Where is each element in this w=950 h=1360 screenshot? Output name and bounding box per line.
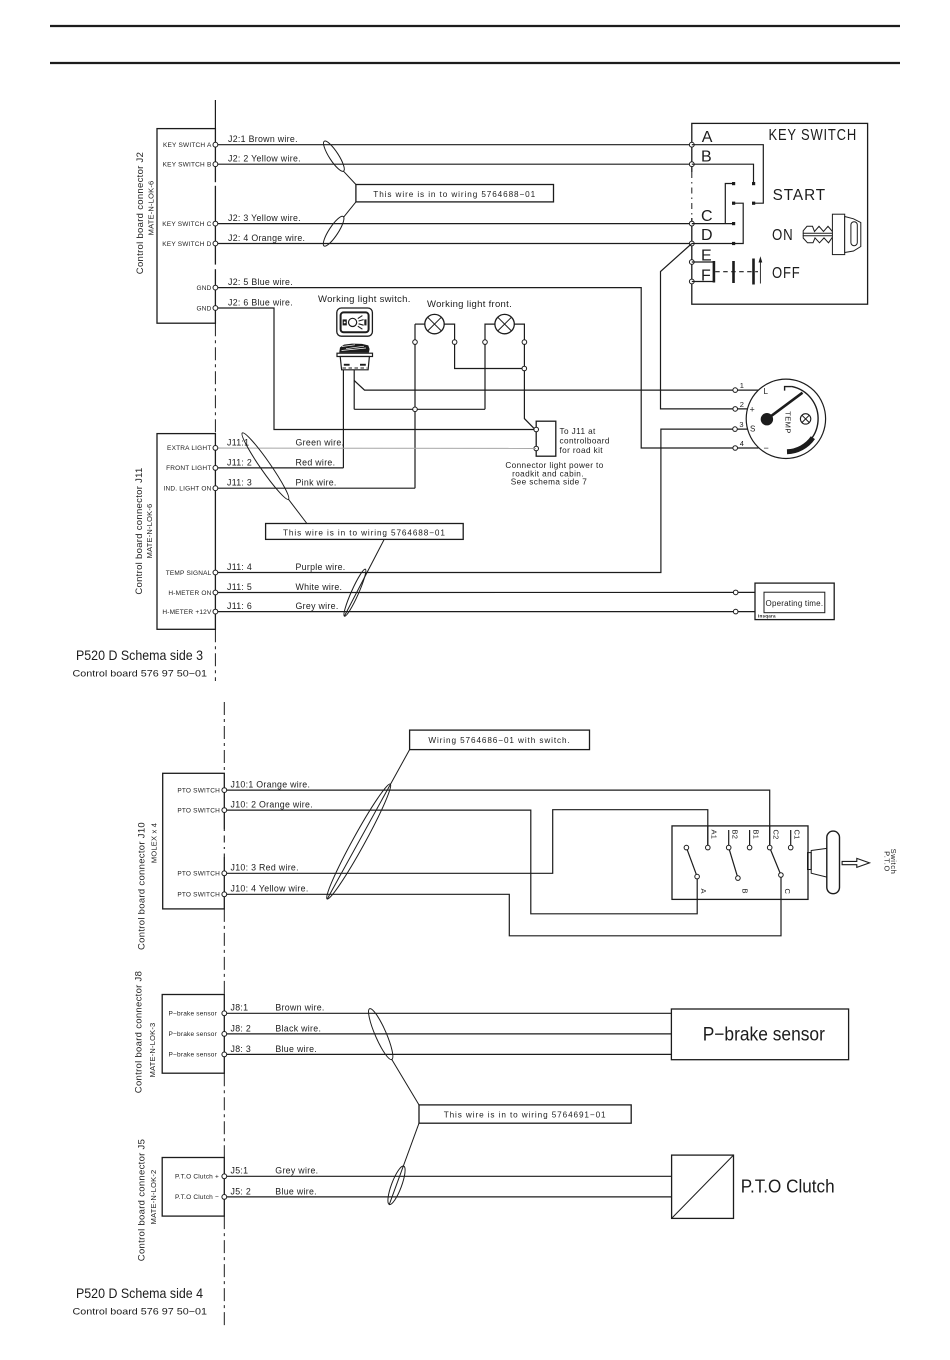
svg-text:J8: 3: J8: 3 — [231, 1044, 252, 1054]
svg-text:KEY SWITCH D: KEY SWITCH D — [162, 241, 211, 248]
title border rule top — [50, 25, 900, 27]
svg-text:J11: 4: J11: 4 — [227, 562, 252, 572]
svg-text:4: 4 — [740, 439, 744, 448]
re-draw entering wires over box — [769, 826, 771, 848]
twist symbol on wires J8:1-J8:3 — [365, 1007, 397, 1062]
svg-text:J11: 2: J11: 2 — [227, 457, 252, 467]
contact A2 — [684, 845, 689, 850]
bus dash below J8 — [223, 1073, 225, 1157]
twist symbol on wires J11:5-J11:6 — [341, 568, 368, 618]
connector J5 pin 2 — [222, 1195, 227, 1200]
svg-text:J5: 2: J5: 2 — [231, 1186, 252, 1196]
label To J11 at controlboard for road kit — [560, 427, 610, 455]
svg-text:Blue wire.: Blue wire. — [275, 1186, 317, 1196]
svg-text:Wiring 5764686−01 with switch.: Wiring 5764686−01 with switch. — [428, 736, 570, 745]
svg-text:Control board connector J11: Control board connector J11 — [134, 467, 145, 594]
svg-text:A1: A1 — [710, 830, 719, 840]
connector J8 pin 1 — [222, 1011, 227, 1016]
connector J2 pin 4 — [213, 241, 218, 246]
svg-text:White wire.: White wire. — [296, 582, 343, 592]
wire J8:2 black — [224, 1033, 671, 1035]
terminal circle F — [689, 279, 694, 284]
svg-text:FRONT LIGHT: FRONT LIGHT — [166, 465, 211, 472]
svg-text:This wire is in to wiring 5764: This wire is in to wiring 5764691−01 — [444, 1110, 607, 1119]
svg-text:See schema side 7: See schema side 7 — [511, 478, 587, 487]
svg-text:for road kit: for road kit — [560, 446, 604, 455]
J10 edge centre-line dash — [223, 829, 225, 857]
lamp1 right terminal — [452, 340, 457, 345]
lamp2 right terminal — [522, 340, 527, 345]
connector J11 pin 3 — [213, 486, 218, 491]
wire J2:1 brown to key switch A — [215, 144, 691, 146]
pivot A — [695, 874, 700, 879]
wire J11:4 purple to temp gauge S — [215, 429, 758, 572]
svg-text:J11:1: J11:1 — [227, 437, 249, 447]
svg-text:MATE-N-LOK-6: MATE-N-LOK-6 — [145, 504, 154, 559]
connector J2 pin 5 — [213, 285, 218, 290]
operating time meter — [755, 583, 834, 620]
pink wire riser and lamp1 left vertical — [414, 324, 416, 488]
svg-text:A: A — [702, 129, 714, 146]
leader to twist lower — [344, 202, 356, 217]
pivot B — [736, 876, 741, 881]
control board connector J5 box — [162, 1158, 224, 1217]
wire J5:1 grey — [224, 1175, 671, 1177]
svg-text:MATE-N-LOK-6: MATE-N-LOK-6 — [147, 181, 156, 236]
svg-text:J10: 4 Yellow wire.: J10: 4 Yellow wire. — [231, 884, 309, 894]
PTO switch box — [672, 826, 808, 900]
bus dash below J5 — [223, 1216, 225, 1328]
svg-text:B2: B2 — [730, 830, 739, 840]
svg-text:C2: C2 — [771, 830, 780, 840]
svg-text:controlboard: controlboard — [560, 437, 610, 446]
svg-text:Insqara: Insqara — [758, 614, 776, 619]
svg-text:B1: B1 — [751, 830, 760, 840]
J2 edge centre-line gaps — [214, 182, 216, 269]
PTO switch shaft — [811, 848, 828, 877]
svg-text:J2: 6 Blue wire.: J2: 6 Blue wire. — [228, 297, 293, 307]
svg-text:MATE-N-LOK-3: MATE-N-LOK-3 — [148, 1023, 157, 1078]
temp gauge terminal 1 — [733, 388, 738, 393]
To J11 terminal 1 — [534, 427, 539, 432]
connector J2 pin 6 — [213, 306, 218, 311]
connector J2 pin 3 — [213, 221, 218, 226]
svg-text:J11: 6: J11: 6 — [227, 601, 252, 611]
hour meter terminal 1 — [733, 590, 738, 595]
svg-text:J2: 5 Blue wire.: J2: 5 Blue wire. — [228, 277, 293, 287]
contact C1 — [788, 845, 793, 850]
connector To J11 box — [536, 421, 556, 456]
svg-text:J8:1: J8:1 — [231, 1003, 249, 1013]
svg-text:IND. LIGHT ON: IND. LIGHT ON — [164, 486, 212, 493]
wire J11:2 red to rocker switch — [215, 467, 343, 469]
svg-text:PTO SWITCH: PTO SWITCH — [177, 787, 220, 794]
wire J11:5 white to hour meter — [215, 591, 755, 593]
svg-text:MATE-N-LOK-2: MATE-N-LOK-2 — [149, 1170, 158, 1225]
callout box: This wire is in to wiring 5764688-01 (second) — [266, 524, 464, 540]
stub B2 — [728, 830, 730, 848]
wire J2:6 blue GND to connector light power — [215, 308, 536, 430]
key icon bow — [832, 214, 860, 254]
svg-text:J10: 2 Orange wire.: J10: 2 Orange wire. — [231, 800, 313, 810]
svg-text:Grey wire.: Grey wire. — [296, 601, 339, 611]
svg-text:+: + — [750, 404, 755, 414]
connector J2 pin 2 — [213, 162, 218, 167]
svg-text:J5:1: J5:1 — [231, 1166, 249, 1176]
blade B — [729, 848, 738, 879]
stub B1 — [749, 830, 751, 848]
connector J8 pin 3 — [222, 1052, 227, 1057]
internal wire from D contact riser — [734, 203, 744, 243]
PTO switch knob — [827, 831, 840, 894]
PTO switch shaft mount — [808, 853, 812, 870]
control board connector J11 box — [157, 434, 215, 630]
bus stub above connector J2 — [214, 100, 216, 129]
leader to callout 5764688-01 lower — [288, 499, 307, 523]
svg-text:GND: GND — [196, 305, 211, 312]
svg-text:L: L — [764, 387, 769, 396]
svg-text:Operating time.: Operating time. — [766, 599, 824, 608]
bus dash between J2 and J11 — [214, 323, 216, 433]
title border rule second — [50, 62, 900, 64]
twist symbol on wires J2:3-J2:4 — [320, 214, 347, 249]
junction node lamps / switch / pink — [413, 407, 418, 412]
svg-text:GND: GND — [196, 285, 211, 292]
key icon blade — [803, 226, 832, 243]
svg-text:P520 D Schema side 4: P520 D Schema side 4 — [76, 1285, 203, 1301]
svg-text:Control board 576 97 50−01: Control board 576 97 50−01 — [73, 669, 208, 680]
blade C — [770, 848, 781, 875]
wire rocker branch to lamp node — [354, 408, 485, 410]
connector J10 pin 4 — [222, 892, 227, 897]
temp gauge terminal 4 — [733, 446, 738, 451]
internal wire C to contact — [692, 223, 734, 225]
wire J2:3 yellow to key switch C — [215, 223, 691, 225]
pivot C — [779, 873, 784, 878]
svg-text:ON: ON — [772, 227, 794, 244]
svg-text:C: C — [701, 208, 714, 225]
contact dots — [732, 182, 755, 245]
connector J2 pin 1 — [213, 142, 218, 147]
wire J10:2 orange to PTO switch A — [224, 810, 697, 914]
svg-text:KEY SWITCH B: KEY SWITCH B — [163, 162, 212, 169]
svg-text:PTO SWITCH: PTO SWITCH — [177, 871, 220, 878]
svg-text:This wire is in to wiring 5764: This wire is in to wiring 5764688−01 — [373, 190, 536, 199]
svg-text:H-METER ON: H-METER ON — [168, 590, 211, 597]
svg-text:Purple wire.: Purple wire. — [296, 562, 346, 572]
wire J11:6 grey to hour meter — [215, 611, 755, 613]
connector J11 pin 1 — [213, 446, 218, 451]
detent arrow — [759, 256, 763, 283]
wire J5:2 blue — [224, 1196, 671, 1198]
svg-text:KEY SWITCH: KEY SWITCH — [769, 127, 858, 144]
terminal circle A — [689, 142, 694, 147]
svg-text:Green wire.: Green wire. — [296, 437, 345, 447]
terminal circle B — [689, 162, 694, 167]
svg-text:P.T.O Clutch +: P.T.O Clutch + — [175, 1174, 219, 1181]
lamp junction node — [522, 366, 527, 371]
To J11 terminal 2 — [534, 446, 539, 451]
lamp2 left terminal — [483, 340, 488, 345]
connector J11 pin 6 — [213, 609, 218, 614]
PTO clutch box — [672, 1155, 734, 1218]
terminal circle E — [689, 260, 694, 265]
terminal circle D — [689, 241, 694, 246]
contact C2 — [767, 845, 772, 850]
svg-text:Brown wire.: Brown wire. — [275, 1003, 324, 1013]
temp gauge terminal 2 — [733, 407, 738, 412]
wire J10:4 yellow to PTO switch C — [224, 875, 781, 936]
twist symbol on wires J10:1-J10:4 — [322, 781, 396, 902]
wire J8:3 blue — [224, 1053, 671, 1055]
temp gauge terminal 3 — [733, 427, 738, 432]
terminal circle C — [689, 221, 694, 226]
stub C1 — [790, 830, 792, 848]
svg-text:P.T.O Clutch −: P.T.O Clutch − — [175, 1194, 219, 1201]
internal wire from B to start contact — [692, 164, 754, 183]
P-brake sensor box — [671, 1009, 848, 1060]
svg-text:TEMP: TEMP — [784, 411, 793, 433]
connector J10 pin 1 — [222, 788, 227, 793]
svg-text:KEY SWITCH A: KEY SWITCH A — [163, 142, 212, 149]
E wire to OFF wafer — [692, 261, 714, 263]
twist symbol on wires J11:1-J11:3 — [238, 430, 292, 502]
internal wire from A to start contact — [692, 145, 764, 204]
callout box: Wiring 5764686-01 with switch. — [410, 730, 590, 750]
key switch box — [690, 123, 867, 304]
svg-text:Blue wire.: Blue wire. — [275, 1044, 317, 1054]
svg-text:This wire is in to wiring 5764: This wire is in to wiring 5764688−01 — [283, 528, 446, 537]
svg-text:H-METER +12V: H-METER +12V — [162, 609, 212, 616]
wire rocker to temp gauge L terminal — [354, 381, 758, 391]
svg-text:−: − — [764, 443, 769, 453]
svg-text:S: S — [750, 424, 755, 433]
lamp1 left terminal — [413, 340, 418, 345]
connector J10 pin 3 — [222, 871, 227, 876]
svg-text:Black wire.: Black wire. — [275, 1023, 321, 1033]
lamp working light front 1 — [425, 314, 444, 333]
svg-text:Pink wire.: Pink wire. — [296, 478, 337, 488]
svg-text:PTO SWITCH: PTO SWITCH — [177, 892, 220, 899]
svg-text:P−brake sensor: P−brake sensor — [168, 1011, 217, 1018]
wire J8:1 brown — [224, 1012, 671, 1014]
svg-text:1: 1 — [740, 381, 744, 390]
leader through twist J11:5-J11:6 — [344, 539, 384, 616]
control board connector J2 box — [157, 129, 215, 324]
F wire to OFF wafer — [692, 281, 714, 283]
svg-text:Control board connector J8: Control board connector J8 — [134, 971, 145, 1093]
lamp2 left wire — [485, 324, 495, 409]
lamp1 right wire — [444, 324, 524, 368]
label Connector light power — [505, 461, 603, 487]
svg-text:J2:1 Brown wire.: J2:1 Brown wire. — [228, 134, 298, 144]
leader through twist J10 — [327, 750, 409, 899]
svg-text:P−brake sensor: P−brake sensor — [168, 1052, 217, 1059]
svg-text:A: A — [699, 889, 708, 894]
connector J5 pin 1 — [222, 1174, 227, 1179]
connector J10 pin 2 — [222, 808, 227, 813]
svg-text:P−brake sensor: P−brake sensor — [168, 1031, 217, 1038]
hour meter terminal 2 — [733, 609, 738, 614]
svg-text:B: B — [741, 889, 750, 894]
connector J8 pin 2 — [222, 1032, 227, 1037]
wire key switch D to temp gauge plus — [661, 244, 759, 409]
wire J2:2 yellow to key switch B — [215, 163, 691, 165]
connector J11 pin 4 — [213, 570, 218, 575]
OFF wafer bar 1 — [713, 261, 716, 283]
svg-text:MOLEX x 4: MOLEX x 4 — [149, 823, 158, 863]
svg-text:Grey wire.: Grey wire. — [275, 1166, 318, 1176]
wire J10:1 orange to PTO switch C2 — [224, 790, 769, 848]
internal wire from C contact riser — [725, 184, 733, 224]
svg-text:J2: 2 Yellow wire.: J2: 2 Yellow wire. — [228, 154, 301, 164]
lamp1 left wire — [415, 323, 425, 325]
leader through twist J5 — [389, 1123, 419, 1204]
lamp working light front 2 — [495, 314, 514, 333]
svg-text:J10: 3 Red wire.: J10: 3 Red wire. — [231, 863, 299, 873]
svg-text:Red wire.: Red wire. — [296, 457, 336, 467]
svg-text:J10:1 Orange wire.: J10:1 Orange wire. — [231, 780, 311, 790]
svg-text:P520 D Schema side 3: P520 D Schema side 3 — [76, 647, 203, 663]
svg-text:J11: 3: J11: 3 — [227, 478, 252, 488]
svg-text:KEY SWITCH C: KEY SWITCH C — [162, 221, 211, 228]
temp gauge body — [746, 379, 825, 458]
wire J10:3 red to PTO switch A1 — [224, 810, 708, 874]
svg-text:P−brake sensor: P−brake sensor — [703, 1025, 826, 1046]
connector J11 pin 5 — [213, 590, 218, 595]
svg-text:Control board connector J5: Control board connector J5 — [136, 1139, 147, 1261]
wire J11:1 green (grey line) to To J11 connector — [215, 447, 536, 449]
leader to callout 5764691-01 — [392, 1060, 419, 1105]
svg-text:Control board 576 97 50−01: Control board 576 97 50−01 — [73, 1307, 208, 1318]
contact B2 — [726, 845, 731, 850]
callout box: This wire is in to wiring 5764688-01 — [356, 185, 554, 202]
svg-text:J2: 3 Yellow wire.: J2: 3 Yellow wire. — [228, 213, 301, 223]
rocker right lead — [353, 370, 355, 410]
leader to callout 5764688-01 upper — [344, 171, 356, 184]
rocker switch — [337, 344, 373, 370]
svg-text:P.T.O Clutch: P.T.O Clutch — [741, 1177, 835, 1197]
contact A1 — [706, 845, 711, 850]
svg-text:TEMP SIGNAL: TEMP SIGNAL — [166, 570, 212, 577]
svg-text:C1: C1 — [792, 830, 801, 840]
svg-text:Control board connector J2: Control board connector J2 — [135, 152, 146, 274]
blade A — [686, 848, 697, 877]
svg-text:J8: 2: J8: 2 — [231, 1023, 252, 1033]
control board connector J8 box — [162, 995, 224, 1074]
svg-text:To J11 at: To J11 at — [560, 427, 597, 436]
lamp2 right wire down to node — [514, 324, 534, 429]
control board connector J10 box — [163, 773, 225, 909]
svg-text:PTO SWITCH: PTO SWITCH — [177, 807, 220, 814]
wire J2:4 orange to key switch D — [215, 243, 691, 245]
bus dash above J10 — [223, 702, 225, 773]
wire J11:3 pink — [215, 487, 415, 489]
svg-text:Switch: Switch — [889, 849, 898, 875]
svg-text:Working light switch.: Working light switch. — [318, 294, 411, 305]
svg-text:3: 3 — [739, 420, 743, 429]
svg-text:C: C — [783, 889, 792, 895]
callout box: This wire is in to wiring 5764691-01 — [419, 1105, 631, 1123]
svg-text:J11: 5: J11: 5 — [227, 582, 252, 592]
mechanical link dashed — [715, 271, 758, 273]
svg-text:EXTRA LIGHT: EXTRA LIGHT — [167, 445, 211, 452]
OFF wafer bar 3 — [752, 259, 755, 285]
working light switch icon — [337, 308, 373, 336]
bus dash below J11 — [214, 629, 216, 681]
svg-text:Control board connector J10: Control board connector J10 — [137, 822, 148, 950]
svg-text:OFF: OFF — [772, 265, 801, 282]
rocker left lead to red wire — [342, 370, 344, 468]
twist symbol on wires J5:1-J5:2 — [385, 1164, 409, 1206]
bus dash below J10 — [223, 909, 225, 995]
contact B1 — [747, 845, 752, 850]
svg-text:2: 2 — [740, 400, 744, 409]
actuate arrow — [842, 858, 869, 867]
svg-text:J2: 4 Orange wire.: J2: 4 Orange wire. — [228, 233, 305, 243]
svg-text:B: B — [701, 148, 713, 165]
svg-text:Working light front.: Working light front. — [427, 299, 512, 310]
svg-text:START: START — [773, 187, 827, 204]
internal wire D to contact — [692, 243, 734, 245]
connector J11 pin 2 — [213, 466, 218, 471]
wire J2:5 blue GND to temp gauge minus — [215, 288, 758, 448]
twist symbol on wires J2:1-J2:2 — [320, 139, 347, 174]
OFF wafer bar 2 — [732, 261, 735, 283]
svg-text:D: D — [701, 227, 714, 244]
